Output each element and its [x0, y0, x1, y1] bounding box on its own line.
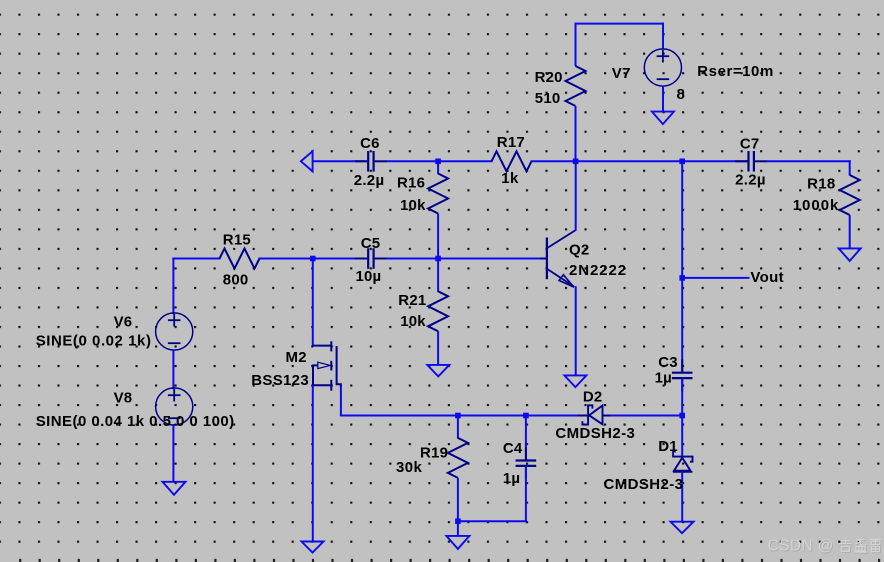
svg-text:CMDSH2-3: CMDSH2-3 [555, 425, 635, 442]
wire [312, 160, 366, 162]
wire [437, 214, 439, 259]
svg-text:30k: 30k [396, 459, 422, 476]
svg-text:2N2222: 2N2222 [569, 262, 627, 279]
ground [564, 375, 586, 387]
label R21 [398, 292, 426, 309]
svg-text:R17: R17 [497, 134, 525, 151]
label 1µ [655, 369, 672, 386]
node junction [679, 159, 685, 165]
svg-text:1k: 1k [501, 170, 519, 187]
resistor R20 [566, 66, 586, 106]
resistor R21 [428, 291, 448, 331]
wire [259, 258, 367, 260]
label 800 [223, 271, 249, 288]
label R19 [420, 444, 448, 461]
label D1 [658, 438, 678, 455]
wire [575, 286, 577, 376]
wire [387, 258, 547, 260]
label D2 [583, 388, 603, 405]
wire [681, 378, 683, 416]
resistor R18 [840, 175, 860, 215]
svg-text:2.2µ: 2.2µ [735, 172, 766, 189]
mosfet M2 [312, 341, 341, 390]
wire [662, 23, 664, 50]
label BSS123 [251, 372, 309, 389]
svg-text:Vout: Vout [750, 269, 784, 286]
svg-text:C6: C6 [360, 135, 380, 152]
wire [681, 416, 683, 457]
label R20 [535, 69, 563, 86]
wire [682, 277, 749, 279]
label C7 [740, 135, 760, 152]
wire [457, 478, 459, 521]
svg-text:1000k: 1000k [793, 197, 840, 214]
ground [652, 112, 674, 125]
label R18 [807, 175, 835, 192]
capacitor C6 [355, 151, 387, 172]
label CMDSH2-3 [604, 476, 684, 493]
wire [662, 86, 664, 112]
svg-text:C7: C7 [740, 135, 760, 152]
ground [446, 536, 469, 549]
wire [387, 160, 493, 162]
svg-text:R15: R15 [223, 231, 251, 248]
diode D2 [578, 405, 611, 424]
wire [681, 161, 683, 373]
wire [849, 215, 851, 249]
label 1k [501, 170, 519, 187]
svg-text:8: 8 [677, 86, 685, 103]
label R17 [497, 134, 525, 151]
svg-text:R20: R20 [535, 69, 563, 86]
node junction [435, 159, 441, 165]
wire [575, 161, 577, 230]
svg-text:SINE(0 0.04 1k 0.5 0 0 100): SINE(0 0.04 1k 0.5 0 0 100) [36, 413, 235, 430]
label 2.2µ [354, 172, 385, 189]
label C3 [658, 354, 678, 371]
label 2.2µ [735, 172, 766, 189]
diode D1 [673, 451, 693, 472]
label 30k [396, 459, 422, 476]
resistor R15 [220, 249, 260, 269]
wire [437, 161, 439, 174]
label 1µ [503, 470, 520, 487]
label 10k [400, 313, 426, 330]
svg-text:10µ: 10µ [356, 268, 382, 285]
node junction [455, 413, 461, 419]
node junction [523, 413, 529, 419]
wire [575, 106, 577, 161]
node junction [455, 518, 461, 524]
capacitor C7 [735, 151, 767, 172]
wire [172, 424, 174, 483]
wire [437, 259, 439, 293]
voltage source V7 [644, 49, 681, 86]
label C4 [503, 440, 523, 457]
label 2N2222 [569, 262, 627, 279]
ground [427, 365, 449, 377]
svg-text:10k: 10k [400, 313, 426, 330]
wire [437, 331, 439, 365]
wire [312, 259, 314, 347]
svg-text:R19: R19 [420, 444, 448, 461]
svg-text:510: 510 [535, 90, 561, 107]
label V8 [114, 389, 133, 406]
wire [602, 415, 683, 417]
label SINE(0 0.02 1k) [36, 333, 152, 350]
capacitor C5 [355, 248, 387, 269]
label 10k [400, 197, 426, 214]
svg-text:C4: C4 [503, 440, 523, 457]
svg-text:1µ: 1µ [503, 470, 520, 487]
label CMDSH2-3 [555, 425, 635, 442]
svg-text:V6: V6 [114, 313, 133, 330]
wire [458, 520, 527, 522]
label C5 [361, 235, 381, 252]
wire [575, 23, 664, 25]
svg-text:D1: D1 [658, 438, 678, 455]
label 510 [535, 90, 561, 107]
ground [671, 522, 694, 534]
svg-text:V8: V8 [114, 389, 133, 406]
resistor R19 [448, 438, 468, 478]
node junction [310, 256, 316, 262]
label V7 [612, 65, 631, 82]
label SINE(0 0.04 1k 0.5 0 0 100) [36, 413, 235, 430]
svg-text:R21: R21 [398, 292, 426, 309]
wire [525, 466, 527, 522]
watermark CSDN [768, 538, 883, 556]
svg-text:R18: R18 [807, 175, 835, 192]
wire [340, 387, 342, 416]
svg-text:C5: C5 [361, 235, 381, 252]
label R16 [397, 174, 425, 191]
node junction [679, 413, 685, 419]
wire [457, 416, 459, 439]
svg-text:1µ: 1µ [655, 369, 672, 386]
label Vout [750, 269, 784, 286]
wire [172, 258, 174, 315]
svg-text:V7: V7 [612, 65, 631, 82]
label 1000k [793, 197, 840, 214]
svg-text:Rser=10m: Rser=10m [697, 63, 774, 80]
node junction [435, 256, 441, 262]
wire [340, 415, 588, 417]
ground [839, 248, 861, 261]
wire [575, 23, 577, 66]
label 8 [677, 86, 685, 103]
svg-text:CSDN @: CSDN @ [768, 538, 834, 555]
svg-text:R16: R16 [397, 174, 425, 191]
wire [172, 258, 220, 260]
node junction [679, 275, 685, 281]
capacitor C4 [516, 447, 537, 479]
ground [163, 482, 186, 495]
svg-text:2.2µ: 2.2µ [354, 172, 385, 189]
wire [766, 160, 851, 162]
wire [531, 160, 749, 162]
label V6 [114, 313, 133, 330]
wire [525, 416, 527, 461]
voltage source V8 [156, 388, 193, 425]
label Q2 [569, 241, 589, 258]
node arrow (rail left end) [301, 151, 313, 171]
ground [302, 542, 324, 553]
svg-text:10k: 10k [400, 197, 426, 214]
resistor R16 [428, 174, 448, 214]
svg-text:M2: M2 [286, 349, 307, 366]
capacitor C3 [672, 359, 693, 391]
resistor R17 [492, 151, 532, 171]
wire [457, 521, 459, 536]
wire [312, 386, 314, 543]
label R15 [223, 231, 251, 248]
svg-text:CMDSH2-3: CMDSH2-3 [604, 476, 684, 493]
transistor Q2 [540, 230, 576, 287]
label Rser=10m [697, 63, 774, 80]
label M2 [286, 349, 307, 366]
wire [849, 160, 851, 175]
svg-text:SINE(0 0.02 1k): SINE(0 0.02 1k) [36, 333, 152, 350]
svg-text:Q2: Q2 [569, 241, 589, 258]
wire [172, 349, 174, 389]
label 10µ [356, 268, 382, 285]
wire [681, 472, 683, 523]
svg-text:D2: D2 [583, 388, 603, 405]
node junction [573, 159, 579, 165]
svg-text:BSS123: BSS123 [251, 372, 309, 389]
svg-text:800: 800 [223, 271, 249, 288]
label C6 [360, 135, 380, 152]
voltage source V6 [156, 313, 193, 350]
